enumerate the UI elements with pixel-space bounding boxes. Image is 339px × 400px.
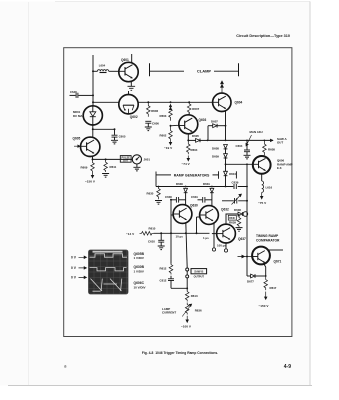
- wire ramp bus y186.5: [156, 186, 247, 188]
- node junction (185.8,233.3): [185, 232, 187, 234]
- svg-text:D677: D677: [247, 280, 254, 284]
- svg-text:CLAMP: CLAMP: [197, 68, 212, 73]
- svg-text:1 V/DIV: 1 V/DIV: [134, 256, 144, 260]
- resistor R612: [169, 264, 173, 275]
- wire Q632 to test point: [213, 224, 215, 248]
- wire Q630 base vertical: [170, 200, 172, 264]
- scope trace 2 square wave: [90, 268, 127, 271]
- svg-text:R606: R606: [151, 109, 158, 113]
- svg-text:D608: D608: [212, 147, 219, 151]
- arrow SAW A out: [270, 139, 273, 142]
- node junction (185.6,186.5): [185, 186, 187, 188]
- svg-text:E.F.: E.F.: [277, 166, 282, 170]
- transistor Q605: [81, 137, 100, 156]
- capacitor C639 inline on bus: [233, 184, 237, 189]
- wire M601 to node: [92, 125, 94, 137]
- label box PULSE OUT: [120, 156, 131, 163]
- svg-text:Q632: Q632: [221, 208, 229, 212]
- resistor R609: [91, 159, 95, 172]
- page bottom edge: [8, 385, 312, 387]
- svg-text:Q604: Q604: [235, 101, 243, 105]
- arrow to -19V: [169, 140, 171, 145]
- wire L604 to Q601 base: [109, 70, 119, 72]
- node junction (114.5,129.3): [114, 128, 116, 130]
- svg-text:−19 V: −19 V: [164, 146, 173, 150]
- wire Q605 emitter: [92, 156, 94, 159]
- svg-text:10 μs: 10 μs: [176, 234, 184, 238]
- node junction (161.2,233.3): [160, 232, 162, 234]
- transistor Q606: [253, 156, 271, 174]
- svg-text:SAW B: SAW B: [194, 270, 203, 274]
- arrow to -74V: [187, 156, 189, 161]
- svg-text:1 μs: 1 μs: [203, 236, 209, 240]
- node junction (247,200.8): [246, 200, 248, 202]
- svg-text:Q630: Q630: [190, 204, 198, 208]
- resistor R610 horizontal: [140, 232, 154, 236]
- svg-text:C612: C612: [160, 279, 167, 283]
- node junction (225.5,164.3): [225, 163, 227, 165]
- svg-text:1 V/DIV: 1 V/DIV: [134, 269, 144, 273]
- svg-text:0 V: 0 V: [71, 266, 77, 270]
- svg-text:0 V: 0 V: [71, 276, 77, 280]
- wire main bus Q602 to Q604: [138, 101, 213, 103]
- svg-text:Fig. 4-8 1046 Trigger Timing: Fig. 4-8 1046 Trigger Timing Ramp Connec…: [142, 351, 218, 355]
- svg-text:−100 V: −100 V: [181, 325, 192, 329]
- svg-text:D605: D605: [192, 134, 199, 138]
- svg-text:R636: R636: [195, 309, 202, 313]
- svg-text:R617: R617: [270, 286, 277, 290]
- svg-text:0 V: 0 V: [71, 256, 77, 260]
- ramp generators bracket tick: [155, 172, 157, 187]
- wire clamp right: [214, 70, 239, 72]
- svg-text:Q605: Q605: [73, 137, 81, 141]
- capacitor C612: [168, 276, 187, 289]
- diode D638: [238, 212, 243, 216]
- wire x247 vertical: [246, 164, 248, 276]
- wire Q602 collector stub: [128, 91, 130, 95]
- wire vertical bus x93 top-left: [92, 55, 94, 106]
- wire Q601 collector stub: [131, 54, 133, 63]
- svg-text:J601: J601: [144, 158, 151, 162]
- svg-text:D610: D610: [229, 172, 236, 176]
- node junction (207.5,140.4): [207, 140, 209, 142]
- wire Q601 emitter: [130, 81, 132, 86]
- page left fold line: [28, 2, 30, 385]
- transistor Q604: [213, 93, 231, 111]
- tick mark x236: [235, 171, 237, 178]
- svg-text:CURRENT: CURRENT: [162, 311, 176, 315]
- wire tap to R613: [186, 278, 188, 291]
- node junction (105.6,159.4): [105, 158, 107, 160]
- capacitor C630: [171, 197, 186, 203]
- scope trace 3 flat segment: [93, 284, 118, 291]
- diode D630: [184, 188, 188, 205]
- svg-text:Q601: Q601: [121, 58, 129, 62]
- wire to L604: [93, 70, 98, 72]
- resistor R608: [263, 140, 267, 155]
- diode D609: [224, 154, 228, 166]
- node junction (247,186.5): [246, 186, 248, 188]
- svg-text:C604: C604: [236, 144, 243, 148]
- svg-text:100 μs: 100 μs: [217, 244, 226, 248]
- svg-text:R610: R610: [149, 227, 156, 231]
- svg-text:OUT: OUT: [123, 160, 129, 163]
- svg-text:Q671: Q671: [274, 260, 282, 264]
- svg-text:C610: C610: [148, 240, 155, 244]
- resistor R602: [169, 126, 173, 140]
- wire Q606 base bus: [226, 163, 254, 165]
- capacitor C606: [145, 121, 152, 130]
- ground under R639: [236, 228, 243, 232]
- svg-text:Q602: Q602: [130, 115, 138, 119]
- wire Q630 base lead: [171, 214, 174, 216]
- wire Q632 base vertical: [196, 217, 198, 233]
- node junction (265.7,276): [265, 275, 267, 277]
- node junction (92.5,159.4): [92, 158, 94, 160]
- node junction (225.5,125.7): [225, 125, 227, 127]
- arrow to -150V bottom right: [265, 292, 267, 300]
- svg-text:C631: C631: [191, 195, 198, 199]
- node junction (170.5,125.8): [170, 125, 172, 127]
- svg-text:−75 V: −75 V: [258, 201, 267, 205]
- transistor Q603: [177, 115, 197, 134]
- variable resistor R603: [169, 104, 173, 121]
- value box R640: [228, 215, 236, 220]
- base arrow wire Q671: [238, 255, 253, 258]
- wire Q637 collector to D638: [226, 214, 238, 225]
- svg-text:−150 V: −150 V: [85, 180, 96, 184]
- resistor R606: [147, 102, 151, 116]
- node junction (158.5,186.5): [158, 186, 160, 188]
- transistor Q637: [217, 224, 236, 243]
- wire Q632 base lead: [197, 216, 201, 218]
- wire clamp left: [150, 70, 185, 72]
- wire Q637 emitter: [225, 243, 227, 249]
- node junction (171,199.8): [170, 199, 172, 201]
- inductor L604: [98, 70, 109, 72]
- svg-text:COMPARATOR: COMPARATOR: [256, 238, 280, 242]
- diode D631: [210, 188, 214, 206]
- svg-text:−74 V: −74 V: [182, 162, 191, 166]
- svg-text:R639: R639: [229, 220, 236, 224]
- resistor R604: [187, 140, 191, 154]
- resistor R611: [104, 159, 108, 172]
- label box SAW B: [191, 269, 207, 279]
- diode D605: [188, 139, 207, 143]
- wire Q604 emitter down: [225, 111, 227, 141]
- transistor Q632: [200, 206, 219, 225]
- capacitor C604: [244, 140, 251, 159]
- capacitor C631: [198, 197, 212, 203]
- wire bracket left: [156, 174, 171, 176]
- svg-text:C639: C639: [232, 180, 239, 184]
- wire emitter bus to BNC: [93, 158, 133, 160]
- node junction (247,140.4): [246, 140, 248, 142]
- diode D607: [208, 124, 226, 141]
- page right edge: [309, 2, 311, 386]
- transistor Q671: [252, 247, 270, 265]
- svg-text:−150 V: −150 V: [259, 304, 270, 308]
- svg-text:Q637: Q637: [238, 237, 246, 241]
- node junction (188.3,140.4): [187, 139, 189, 141]
- connector tap circle 1: [186, 268, 189, 271]
- svg-text:−14 V: −14 V: [126, 232, 135, 236]
- wire Q671 collector right: [268, 249, 283, 251]
- svg-text:D638: D638: [234, 208, 241, 212]
- node junction (187.2,288.3): [186, 287, 188, 289]
- svg-text:D630: D630: [176, 182, 183, 186]
- node junction (247,164.3): [246, 163, 248, 165]
- meter M601: [83, 106, 102, 125]
- wire Q637 base: [212, 233, 218, 235]
- schematic frame: [64, 48, 292, 337]
- svg-text:R603: R603: [160, 114, 167, 118]
- clamp terminal bar right: [238, 63, 240, 76]
- variable capacitor C640: [232, 194, 242, 205]
- arrow to -100V: [186, 316, 188, 323]
- ground under R611: [102, 174, 109, 178]
- svg-text:D607: D607: [211, 119, 218, 123]
- svg-text:Q603: Q603: [199, 118, 207, 122]
- base input arrow Q605: [74, 145, 80, 147]
- node junction (93,96): [92, 94, 94, 96]
- wire between taps: [186, 271, 188, 275]
- wire Q603 collector stub: [188, 112, 190, 115]
- transistor Q630: [173, 205, 192, 224]
- wire Q671 emitter down: [264, 264, 266, 276]
- svg-text:L604: L604: [99, 63, 106, 67]
- svg-text:DC MA: DC MA: [73, 114, 83, 118]
- svg-text:®: ®: [64, 365, 67, 369]
- arrow to -75V: [261, 192, 263, 198]
- resistor R613: [185, 291, 189, 302]
- node junction (148.3,102.3): [147, 101, 149, 103]
- resistor R617: [264, 276, 268, 290]
- wire Q603 emitter: [187, 134, 189, 141]
- node junction (170.5,102.3): [170, 101, 172, 103]
- svg-text:R609: R609: [81, 166, 88, 170]
- node junction (93,71.3): [92, 70, 94, 72]
- svg-text:R611: R611: [110, 165, 117, 169]
- wire R639 top: [238, 214, 240, 217]
- svg-text:R607: R607: [192, 107, 199, 111]
- connector test point small circle: [212, 248, 215, 251]
- svg-text:R608: R608: [268, 148, 275, 152]
- node junction (225.5,140.4): [225, 140, 227, 142]
- svg-text:R604: R604: [191, 148, 198, 152]
- node junction (93,102.3): [92, 101, 94, 103]
- svg-text:MAN ADJ: MAN ADJ: [250, 130, 263, 134]
- transistor Q601: [119, 62, 138, 81]
- wire node to C605: [93, 128, 115, 130]
- resistor R630: [157, 187, 161, 200]
- svg-text:R630: R630: [147, 192, 154, 196]
- svg-text:C605: C605: [119, 135, 126, 139]
- ground under R630: [155, 201, 162, 205]
- wire x187 down through tap: [186, 223, 187, 268]
- resistor R607: [187, 102, 191, 113]
- transistor Q602: [119, 95, 138, 114]
- pot arrow to C604: [246, 135, 252, 146]
- wire bracket right: [213, 174, 219, 176]
- svg-text:C630: C630: [165, 195, 172, 199]
- node junction (196.5,233.3): [196, 232, 198, 234]
- svg-text:4-9: 4-9: [284, 364, 291, 370]
- svg-text:D631: D631: [203, 182, 210, 186]
- node junction (92.8,129.3): [92, 128, 94, 130]
- node junction (247,256.5): [246, 256, 248, 258]
- ground under J601: [133, 167, 140, 171]
- node junction (264.4,140.4): [264, 140, 266, 142]
- diode D610: [224, 164, 228, 186]
- oscilloscope screen graphic: [89, 250, 129, 294]
- svg-text:R613: R613: [191, 294, 198, 298]
- diode D608: [224, 145, 228, 154]
- svg-text:R602: R602: [160, 133, 167, 137]
- wire Q606 emitter: [261, 174, 263, 181]
- arrow to -150V: [91, 173, 93, 178]
- svg-text:R612: R612: [160, 267, 167, 271]
- variable resistor R636: [182, 303, 192, 317]
- capacitor C648: [70, 93, 94, 98]
- clamp terminal bar left: [149, 63, 151, 76]
- wire saw A bus: [208, 139, 274, 141]
- scope trace 1 square wave: [90, 254, 128, 257]
- svg-text:D609: D609: [212, 155, 219, 159]
- node junction (189.2,102.3): [188, 101, 190, 103]
- ground under Q601: [128, 86, 136, 90]
- bracket tick right: [218, 171, 220, 178]
- page top edge: [55, 1, 310, 3]
- svg-text:RAMP GENERATORS: RAMP GENERATORS: [174, 174, 210, 178]
- wire main lower bus: [154, 232, 210, 234]
- wire trimmer row: [222, 200, 247, 202]
- svg-text:L616: L616: [266, 186, 273, 190]
- wire junction to Q603 base: [171, 124, 178, 127]
- connector J601: [132, 155, 141, 164]
- svg-text:Circuit Description—Type 310: Circuit Description—Type 310: [236, 34, 290, 38]
- connector test point circle 2: [224, 249, 227, 252]
- connector circle D638 out: [243, 212, 248, 217]
- wire J601 to ground: [136, 164, 138, 167]
- power arrow above Q604: [221, 81, 224, 93]
- node junction (225.5,186.5): [225, 186, 227, 188]
- scope trace 3 ramps: [91, 279, 122, 291]
- inductor L616: [262, 181, 264, 192]
- resistor R639: [237, 217, 241, 227]
- connector tap circle 2: [186, 275, 189, 278]
- svg-text:OUT: OUT: [277, 141, 283, 145]
- diode D677: [247, 274, 266, 278]
- svg-text:C606: C606: [152, 121, 159, 125]
- node junction (211.9,186.5): [211, 186, 213, 188]
- capacitor C610: [158, 233, 165, 249]
- capacitor C605: [111, 129, 118, 144]
- wire base bus to Q602: [93, 101, 119, 103]
- node junction (171,233.3): [170, 232, 172, 234]
- svg-text:OUTPUT: OUTPUT: [194, 275, 205, 278]
- scope top bright band: [93, 251, 123, 253]
- svg-text:10 V/DIV: 10 V/DIV: [134, 285, 146, 289]
